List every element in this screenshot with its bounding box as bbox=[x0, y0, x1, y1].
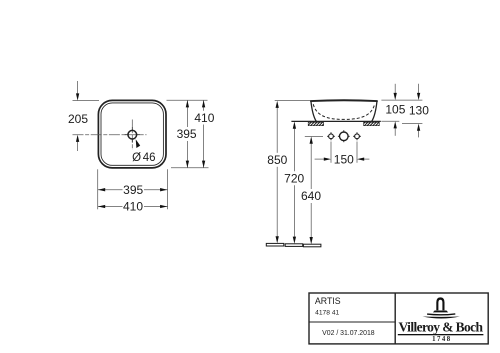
drain hole circle bbox=[128, 130, 137, 139]
svg-text:Ø: Ø bbox=[132, 152, 141, 164]
V&B logo middle arc bbox=[427, 313, 455, 316]
dimension 205 top extension line bbox=[73, 100, 100, 102]
V&B logo arch bbox=[436, 297, 444, 310]
basin outer outline (rounded square) bbox=[98, 100, 166, 167]
dimension 410 vertical line bbox=[203, 100, 205, 111]
dimension 720 vertical line bbox=[293, 128, 295, 172]
dimension 395 vertical text bbox=[177, 128, 197, 139]
dimension 105 lower arrow bbox=[394, 127, 396, 136]
dimension 150 extension lines bbox=[330, 142, 332, 163]
tap hole large circle center bbox=[340, 132, 349, 141]
basin right profile bbox=[372, 101, 377, 122]
bottom right extension line bbox=[167, 169, 169, 209]
dimension 205 lower arrow bbox=[77, 141, 79, 152]
svg-text:130: 130 bbox=[409, 104, 429, 118]
dimension 105 bottom extension bbox=[381, 120, 399, 122]
svg-text:150: 150 bbox=[334, 152, 354, 166]
floor tile 1 bbox=[266, 243, 284, 246]
dimension 410 horizontal text bbox=[123, 201, 145, 212]
V&B logo bottom arc bbox=[423, 317, 460, 319]
floor tile 3 bbox=[303, 244, 321, 247]
tap hole small circle right bbox=[355, 134, 360, 139]
svg-text:395: 395 bbox=[177, 127, 197, 141]
svg-text:850: 850 bbox=[267, 153, 287, 167]
dimension 205 upper arrow bbox=[77, 81, 79, 95]
right side top extension line bbox=[167, 99, 208, 101]
svg-text:4178 41: 4178 41 bbox=[315, 309, 339, 316]
basin inner rim line bbox=[101, 103, 163, 165]
dimension 130 bottom extension bbox=[402, 123, 422, 125]
svg-text:640: 640 bbox=[301, 189, 321, 203]
right mounting pad (hatched) bbox=[364, 122, 380, 125]
svg-text:Villeroy & Boch: Villeroy & Boch bbox=[399, 319, 484, 334]
svg-text:205: 205 bbox=[68, 112, 88, 126]
title block vertical divider bbox=[394, 293, 396, 344]
title block horizontal divider bbox=[309, 321, 395, 323]
svg-text:46: 46 bbox=[143, 152, 156, 164]
left mounting pad (hatched) bbox=[308, 122, 323, 125]
dimension 850 vertical line bbox=[276, 107, 278, 153]
leader arrow to drain bbox=[136, 139, 141, 148]
svg-text:410: 410 bbox=[194, 111, 214, 125]
dimension 105 upper arrow bbox=[394, 84, 396, 95]
dimension 130 upper arrow bbox=[418, 84, 420, 95]
right top extension line bbox=[381, 99, 422, 101]
dimension 395 vertical line bbox=[186, 100, 188, 127]
svg-text:105: 105 bbox=[385, 103, 405, 117]
tap hole small circle left bbox=[329, 134, 334, 139]
tap hole centerline / 640 extension bbox=[305, 135, 323, 137]
svg-text:ARTIS: ARTIS bbox=[315, 296, 341, 306]
svg-text:720: 720 bbox=[284, 171, 304, 185]
title block outer frame bbox=[309, 293, 488, 344]
svg-text:395: 395 bbox=[123, 183, 143, 197]
dimension 410 vertical text bbox=[195, 112, 215, 123]
svg-text:410: 410 bbox=[123, 200, 143, 214]
vertical centerline bbox=[131, 120, 133, 151]
rim left extension line bbox=[275, 99, 311, 101]
dimension 410 horizontal line bbox=[98, 206, 168, 208]
dimension 395 horizontal line bbox=[98, 189, 168, 191]
floor tile 2 bbox=[285, 244, 303, 247]
dimension 150 right arrow bbox=[362, 158, 369, 160]
dimension 640 vertical line bbox=[310, 142, 312, 189]
V&B logo base bar bbox=[433, 311, 448, 313]
horizontal centerline bbox=[73, 134, 147, 136]
right side bottom extension line bbox=[171, 167, 209, 169]
countertop line bbox=[291, 120, 380, 122]
svg-text:1748: 1748 bbox=[432, 336, 452, 343]
svg-text:V02 / 31.07.2018: V02 / 31.07.2018 bbox=[322, 330, 375, 337]
drain circle tick marks bbox=[125, 127, 140, 142]
basin left profile bbox=[311, 101, 316, 122]
dimension 395 horizontal text bbox=[123, 184, 145, 195]
dimension 150 left arrow bbox=[315, 158, 326, 160]
bottom left extension line bbox=[97, 169, 99, 209]
basin inner bowl (dashed) bbox=[313, 104, 375, 119]
logo underline bbox=[398, 334, 484, 335]
basin rim (top edge) bbox=[311, 99, 377, 102]
dimension 130 lower arrow bbox=[418, 130, 420, 138]
